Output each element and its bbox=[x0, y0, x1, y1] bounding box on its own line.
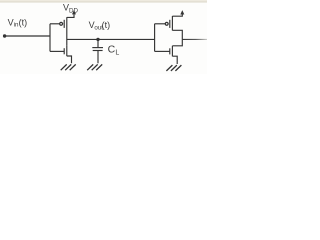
wire output node horizontal bbox=[67, 38, 155, 40]
pmos second-inverter gate bubble bbox=[165, 22, 168, 25]
capacitor CL bottom plate bbox=[93, 50, 103, 52]
ground under first nmos bbox=[61, 64, 76, 70]
pmos second-inverter source lead bbox=[172, 15, 182, 17]
wire input riser (gate tie) bbox=[49, 24, 51, 52]
ground under second nmos bbox=[166, 65, 181, 71]
svg-text:(t): (t) bbox=[19, 18, 28, 28]
label Vout(t) bbox=[89, 20, 111, 31]
pmos first-inverter gate bubble bbox=[60, 22, 63, 25]
power VDD arrow second stage bbox=[180, 10, 184, 14]
wire second nmos drain lead bbox=[172, 39, 182, 45]
nmos first-inverter source lead bbox=[67, 56, 72, 63]
page rule is decorative, drawn without label bbox=[0, 0, 207, 1]
pmos first-inverter gate bar bbox=[63, 20, 65, 28]
nmos second-inverter source lead bbox=[172, 56, 177, 64]
nmos first-inverter gate bar bbox=[63, 48, 65, 54]
wire pmos drain to nmos drain bbox=[66, 31, 68, 46]
pmos second-inverter channel bar bbox=[171, 16, 173, 31]
capacitor CL bottom lead bbox=[97, 51, 99, 63]
capacitor CL top lead bbox=[97, 39, 99, 47]
svg-text:(t): (t) bbox=[102, 20, 111, 30]
nmos second-inverter gate bar bbox=[169, 48, 171, 54]
capacitor CL top plate bbox=[92, 47, 103, 49]
wire Vin horizontal bbox=[5, 35, 50, 37]
pmos first-inverter source lead bbox=[67, 14, 74, 17]
wire second pmos drain lead bbox=[172, 30, 182, 39]
ground under CL bbox=[87, 64, 102, 70]
node Vin terminal dot bbox=[3, 34, 6, 37]
power VDD arrow bbox=[72, 10, 76, 14]
svg-text:DD: DD bbox=[69, 7, 78, 14]
nmos second-inverter channel bar bbox=[171, 46, 173, 57]
svg-text:L: L bbox=[115, 50, 119, 57]
label CL bbox=[108, 43, 120, 56]
wire second pmos gate stub bbox=[155, 23, 166, 25]
pmos first-inverter channel bar bbox=[66, 17, 68, 30]
wire second-stage output (fading right) bbox=[182, 38, 207, 40]
wire PMOS gate stub bbox=[50, 23, 60, 25]
nmos first-inverter channel bar bbox=[66, 45, 68, 56]
pmos second-inverter gate bar bbox=[169, 20, 171, 28]
svg-text:C: C bbox=[108, 43, 116, 55]
node Vout junction dot bbox=[96, 38, 99, 41]
label Vin(t) bbox=[8, 18, 28, 29]
nmos second-inverter gate stub bbox=[155, 50, 170, 52]
label VDD bbox=[63, 3, 78, 15]
nmos first-inverter gate stub bbox=[50, 50, 64, 52]
wire second-stage riser (gate tie) bbox=[154, 24, 156, 52]
